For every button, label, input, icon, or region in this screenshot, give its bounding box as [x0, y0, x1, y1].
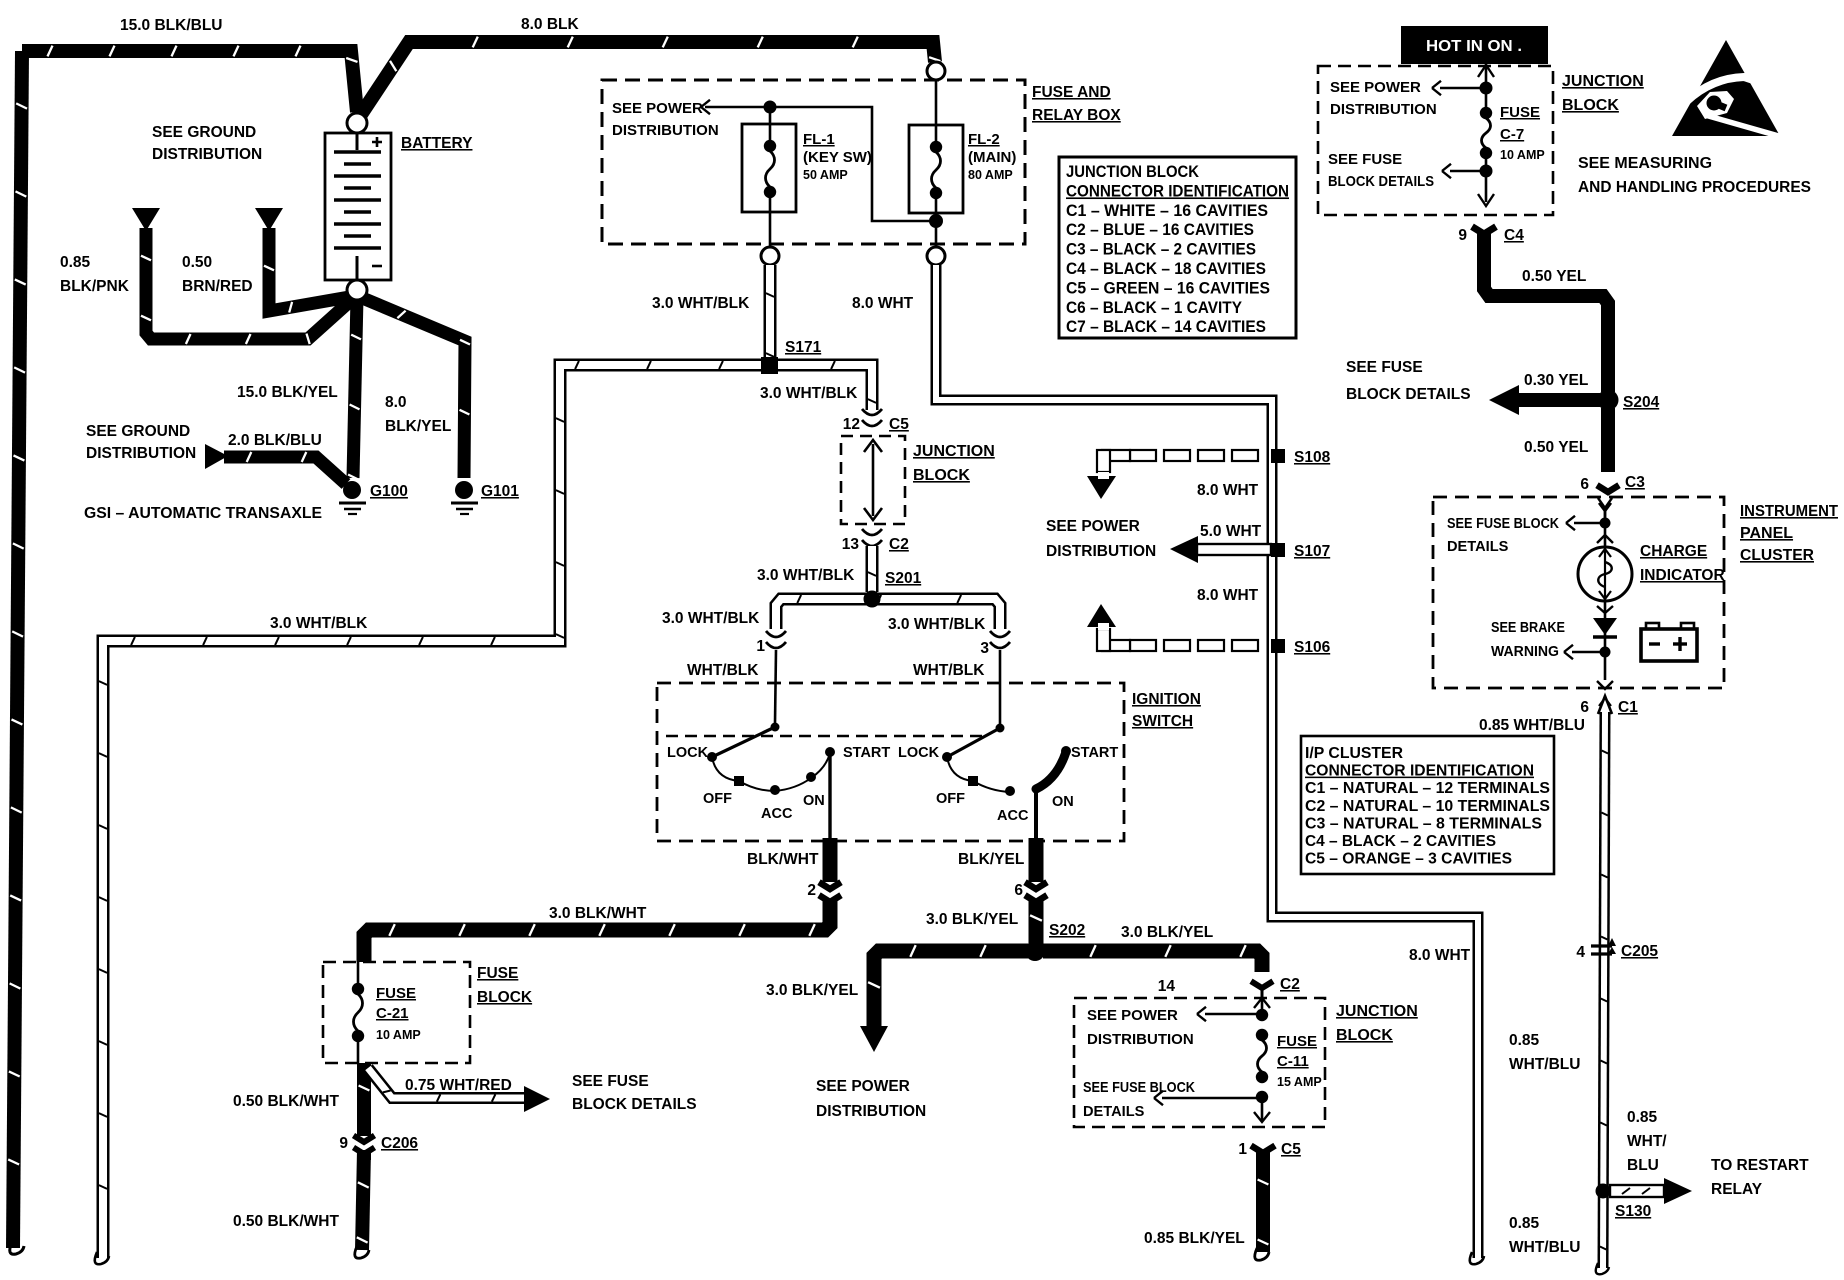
svg-text:ACC: ACC	[761, 806, 793, 822]
svg-text:SEE GROUND: SEE GROUND	[152, 124, 256, 141]
svg-text:DISTRIBUTION: DISTRIBUTION	[1046, 543, 1156, 560]
splice S202	[1025, 922, 1085, 961]
svg-text:(MAIN): (MAIN)	[968, 149, 1016, 166]
wire 3.0 WHT/BLK (S171 loop)	[95, 361, 761, 1264]
connector pin 2	[807, 874, 841, 912]
svg-text:C-21: C-21	[376, 1005, 409, 1022]
svg-text:SEE POWER: SEE POWER	[1087, 1007, 1178, 1024]
svg-text:C3 – BLACK – 2 CAVITIES: C3 – BLACK – 2 CAVITIES	[1066, 241, 1256, 259]
svg-text:C3: C3	[1625, 474, 1645, 491]
label see power distribution (C-11)	[1087, 1007, 1258, 1048]
wire 3.0 BLK/WHT	[364, 905, 830, 962]
terminal circle FL-2 out	[927, 247, 945, 265]
svg-text:C-7: C-7	[1500, 126, 1524, 143]
splice S130	[1596, 1109, 1810, 1220]
svg-text:FL-1: FL-1	[803, 131, 835, 148]
svg-text:3.0 WHT/BLK: 3.0 WHT/BLK	[270, 615, 368, 632]
svg-text:S171: S171	[785, 339, 822, 356]
svg-text:SEE FUSE BLOCK: SEE FUSE BLOCK	[1083, 1080, 1195, 1096]
svg-text:ACC: ACC	[997, 808, 1029, 824]
svg-text:8.0 WHT: 8.0 WHT	[1197, 587, 1259, 604]
label see fuse block details (fuse block)	[572, 1073, 697, 1113]
wire 3.0 BLK/YEL (to S202)	[926, 905, 1042, 948]
svg-text:S106: S106	[1294, 639, 1331, 656]
label GSI automatic transaxle	[84, 505, 322, 522]
svg-text:50 AMP: 50 AMP	[803, 168, 848, 182]
wire 15.0 BLK/BLU	[8, 17, 357, 1254]
svg-text:0.85: 0.85	[1627, 1109, 1658, 1126]
ignition switch bank B	[898, 724, 1118, 841]
svg-text:0.85 BLK/YEL: 0.85 BLK/YEL	[1144, 1230, 1245, 1247]
svg-text:TO RESTART: TO RESTART	[1711, 1157, 1809, 1174]
svg-text:15.0 BLK/YEL: 15.0 BLK/YEL	[237, 384, 338, 401]
svg-text:C2 – BLUE – 16 CAVITIES: C2 – BLUE – 16 CAVITIES	[1066, 221, 1254, 239]
wire 0.85 BLK/YEL	[1144, 1152, 1269, 1260]
svg-text:START: START	[1071, 745, 1118, 761]
svg-text:8.0: 8.0	[385, 394, 407, 411]
svg-text:BLU: BLU	[1627, 1157, 1659, 1174]
connector pin 1	[687, 631, 786, 679]
svg-text:SEE GROUND: SEE GROUND	[86, 423, 190, 440]
svg-text:BLK/PNK: BLK/PNK	[60, 278, 130, 295]
svg-text:SEE POWER: SEE POWER	[612, 100, 703, 117]
wire BLK/WHT (ignition out)	[747, 838, 830, 874]
svg-text:10 AMP: 10 AMP	[376, 1028, 421, 1042]
fuse and relay box	[602, 80, 1121, 244]
svg-text:JUNCTION BLOCK: JUNCTION BLOCK	[1066, 163, 1199, 181]
svg-text:15.0 BLK/BLU: 15.0 BLK/BLU	[120, 17, 223, 34]
label see measuring and handling procedures	[1578, 155, 1811, 196]
svg-text:G101: G101	[481, 483, 519, 500]
svg-text:C7 – BLACK – 14 CAVITIES: C7 – BLACK – 14 CAVITIES	[1066, 318, 1266, 336]
junction block (middle)	[841, 436, 995, 524]
svg-text:SEE POWER: SEE POWER	[816, 1078, 910, 1095]
fusible link FL-1	[742, 101, 872, 248]
wire 0.50 BLK/WHT (upper)	[233, 1063, 369, 1130]
svg-text:RELAY BOX: RELAY BOX	[1032, 107, 1121, 124]
svg-text:14: 14	[1158, 978, 1176, 995]
svg-text:3.0 BLK/WHT: 3.0 BLK/WHT	[549, 905, 647, 922]
svg-text:G100: G100	[370, 483, 408, 500]
wire 8.0 WHT (FL-2 feed)	[852, 265, 1484, 1264]
svg-text:C206: C206	[381, 1135, 418, 1152]
svg-text:3.0 BLK/YEL: 3.0 BLK/YEL	[926, 911, 1018, 928]
wire 3.0 BLK/YEL (S202 to C2)	[1043, 924, 1262, 972]
splice S106	[1087, 587, 1331, 656]
svg-text:C1: C1	[1618, 699, 1638, 716]
terminal circle FL-2 top	[927, 62, 945, 80]
svg-text:3: 3	[980, 640, 989, 657]
svg-text:INSTRUMENT: INSTRUMENT	[1740, 503, 1838, 520]
battery icon (cluster)	[1641, 623, 1697, 661]
svg-text:5.0 WHT: 5.0 WHT	[1200, 523, 1262, 540]
wire 3.0 BLK/YEL (S202 to power dist)	[766, 945, 1028, 1120]
svg-text:SWITCH: SWITCH	[1132, 713, 1193, 730]
svg-text:DISTRIBUTION: DISTRIBUTION	[152, 146, 262, 163]
svg-text:CONNECTOR IDENTIFICATION: CONNECTOR IDENTIFICATION	[1305, 763, 1534, 780]
wire 3.0 WHT/BLK (FL-1 to S171)	[652, 265, 774, 360]
ignition switch box	[657, 683, 1201, 841]
wire 3.0 WHT/BLK (S201 to ignition)	[662, 595, 1000, 633]
wire 2.0 BLK/BLU	[86, 423, 346, 484]
junction block (top right)	[1318, 66, 1644, 215]
wire 0.50 YEL (C4 to S204)	[1484, 232, 1608, 392]
charge indicator	[1578, 543, 1725, 601]
svg-text:0.85: 0.85	[60, 254, 91, 271]
wire 0.50 BRN/RED	[182, 208, 356, 313]
svg-text:BLOCK DETAILS: BLOCK DETAILS	[572, 1096, 697, 1113]
wire 0.85 WHT/BLU (C1 down)	[1479, 712, 1609, 1274]
svg-text:0.50 BLK/WHT: 0.50 BLK/WHT	[233, 1213, 339, 1230]
svg-text:DETAILS: DETAILS	[1083, 1104, 1145, 1120]
fuse C-21	[352, 962, 421, 1063]
svg-text:0.50: 0.50	[182, 254, 212, 271]
instrument panel cluster box	[1433, 497, 1838, 688]
svg-text:C5 – GREEN – 16 CAVITIES: C5 – GREEN – 16 CAVITIES	[1066, 279, 1270, 297]
fuse C-11	[1254, 998, 1322, 1122]
svg-text:C1 – WHITE – 16 CAVITIES: C1 – WHITE – 16 CAVITIES	[1066, 202, 1268, 220]
svg-text:C2 – NATURAL – 10 TERMINALS: C2 – NATURAL – 10 TERMINALS	[1305, 798, 1550, 815]
svg-text:DISTRIBUTION: DISTRIBUTION	[1087, 1031, 1194, 1048]
svg-text:C5: C5	[889, 416, 909, 433]
svg-text:DISTRIBUTION: DISTRIBUTION	[612, 122, 719, 139]
svg-text:0.85 WHT/BLU: 0.85 WHT/BLU	[1479, 717, 1585, 734]
svg-text:FL-2: FL-2	[968, 131, 1000, 148]
svg-text:C6 – BLACK – 1 CAVITY: C6 – BLACK – 1 CAVITY	[1066, 299, 1242, 317]
svg-text:START: START	[843, 745, 890, 761]
svg-text:C4 – BLACK – 2 CAVITIES: C4 – BLACK – 2 CAVITIES	[1305, 833, 1496, 850]
svg-text:ON: ON	[1052, 794, 1074, 810]
connector C206 pin 9	[339, 1130, 418, 1160]
splice S107	[1046, 518, 1330, 563]
wire 0.50 BLK/WHT (lower)	[233, 1150, 369, 1258]
svg-text:4: 4	[1576, 944, 1585, 961]
svg-text:S107: S107	[1294, 543, 1330, 560]
svg-text:BLK/WHT: BLK/WHT	[747, 851, 819, 868]
svg-text:BLOCK DETAILS: BLOCK DETAILS	[1328, 174, 1434, 190]
wire see power distribution (fuse box)	[612, 100, 930, 221]
svg-text:C5 – ORANGE – 3 CAVITIES: C5 – ORANGE – 3 CAVITIES	[1305, 851, 1512, 868]
svg-text:S108: S108	[1294, 449, 1331, 466]
svg-text:9: 9	[339, 1135, 348, 1152]
wire 3.0 WHT/BLK (C2 to S201)	[757, 546, 876, 592]
connector C3 pin 6	[1580, 474, 1645, 520]
connector C1 pin 6	[1580, 696, 1638, 716]
svg-text:2: 2	[807, 882, 816, 899]
svg-text:WHT/: WHT/	[1627, 1133, 1667, 1150]
connector C4 pin 9	[1458, 227, 1524, 244]
cluster entry node	[1447, 498, 1613, 555]
wire to ignition switch pivots	[775, 650, 1000, 724]
splice S201	[864, 570, 922, 608]
svg-text:3.0 WHT/BLK: 3.0 WHT/BLK	[888, 616, 986, 633]
svg-text:BLOCK DETAILS: BLOCK DETAILS	[1346, 386, 1471, 403]
svg-text:OFF: OFF	[703, 791, 732, 807]
svg-text:10 AMP: 10 AMP	[1500, 148, 1545, 162]
svg-text:BLK/YEL: BLK/YEL	[958, 851, 1024, 868]
svg-text:WHT/BLK: WHT/BLK	[687, 662, 759, 679]
cluster exit node	[1597, 681, 1613, 689]
label see ground distribution (battery)	[152, 124, 262, 163]
svg-text:80 AMP: 80 AMP	[968, 168, 1013, 182]
svg-text:BLOCK: BLOCK	[1562, 97, 1619, 114]
svg-text:SEE FUSE: SEE FUSE	[1346, 359, 1423, 376]
svg-text:9: 9	[1458, 227, 1467, 244]
svg-text:6: 6	[1580, 476, 1589, 493]
svg-text:8.0 WHT: 8.0 WHT	[1409, 947, 1471, 964]
svg-text:FUSE: FUSE	[1500, 104, 1540, 121]
svg-text:LOCK: LOCK	[667, 745, 709, 761]
svg-text:SEE POWER: SEE POWER	[1330, 79, 1421, 96]
svg-text:DETAILS: DETAILS	[1447, 539, 1509, 555]
svg-text:CLUSTER: CLUSTER	[1740, 547, 1814, 564]
svg-text:BLOCK: BLOCK	[1336, 1027, 1393, 1044]
svg-text:SEE FUSE BLOCK: SEE FUSE BLOCK	[1447, 516, 1559, 532]
svg-text:C3 – NATURAL – 8 TERMINALS: C3 – NATURAL – 8 TERMINALS	[1305, 815, 1542, 832]
svg-text:WARNING: WARNING	[1491, 644, 1559, 660]
svg-text:0.75 WHT/RED: 0.75 WHT/RED	[405, 1077, 512, 1094]
svg-text:6: 6	[1580, 699, 1589, 716]
fuse block box	[323, 962, 533, 1063]
wire 0.75 WHT/RED	[368, 1068, 550, 1112]
wire 8.0 BLK/YEL	[360, 297, 470, 478]
wire 0.85 BLK/PNK	[60, 208, 357, 344]
svg-text:8.0 WHT: 8.0 WHT	[1197, 482, 1259, 499]
svg-text:WHT/BLU: WHT/BLU	[1509, 1056, 1580, 1073]
svg-text:1: 1	[1238, 1141, 1247, 1158]
terminal circle FL-1 out	[761, 247, 779, 265]
connector pin 3	[913, 631, 1010, 679]
svg-text:C-11: C-11	[1277, 1053, 1309, 1070]
svg-text:FUSE: FUSE	[376, 985, 416, 1002]
wire 15.0 BLK/YEL	[237, 297, 361, 479]
svg-text:3.0 WHT/BLK: 3.0 WHT/BLK	[652, 295, 750, 312]
svg-text:WHT/BLK: WHT/BLK	[913, 662, 985, 679]
svg-text:0.50 BLK/WHT: 0.50 BLK/WHT	[233, 1093, 339, 1110]
ground G101	[451, 481, 519, 514]
connector C205 pin 4	[1576, 938, 1658, 961]
fuse C-7	[1478, 64, 1545, 206]
connector C2 pin 13	[842, 529, 909, 553]
svg-text:SEE POWER: SEE POWER	[1046, 518, 1140, 535]
svg-text:FUSE: FUSE	[1277, 1033, 1317, 1050]
svg-text:1: 1	[756, 638, 765, 655]
svg-text:C5: C5	[1281, 1141, 1301, 1158]
hot in on box	[1401, 26, 1548, 64]
svg-text:13: 13	[842, 536, 860, 553]
I/P cluster connector identification table	[1301, 736, 1554, 874]
splice S204	[1346, 359, 1660, 415]
wire BLK/YEL (ignition out)	[958, 838, 1036, 874]
svg-text:2.0 BLK/BLU: 2.0 BLK/BLU	[228, 432, 322, 449]
junction block connector identification table	[1059, 157, 1296, 338]
svg-text:0.85: 0.85	[1509, 1215, 1540, 1232]
connector pin 6	[1014, 874, 1047, 912]
label see power distribution (C-7)	[1330, 79, 1482, 118]
svg-text:SEE FUSE: SEE FUSE	[1328, 151, 1402, 168]
svg-text:JUNCTION: JUNCTION	[1336, 1003, 1418, 1020]
svg-text:15 AMP: 15 AMP	[1277, 1075, 1322, 1089]
svg-text:JUNCTION: JUNCTION	[1562, 73, 1644, 90]
svg-text:C205: C205	[1621, 943, 1658, 960]
wire 3.0 WHT/BLK (S171 to junction block)	[760, 361, 876, 410]
svg-text:RELAY: RELAY	[1711, 1181, 1763, 1198]
splice S171	[761, 339, 822, 374]
svg-text:S201: S201	[885, 570, 922, 587]
svg-text:3.0 BLK/YEL: 3.0 BLK/YEL	[1121, 924, 1213, 941]
wire 0.50 YEL (S204 to C3)	[1524, 408, 1608, 472]
label see fuse block details (C-11)	[1083, 1080, 1258, 1120]
svg-text:6: 6	[1014, 882, 1023, 899]
svg-text:3.0 WHT/BLK: 3.0 WHT/BLK	[757, 567, 855, 584]
svg-text:DISTRIBUTION: DISTRIBUTION	[816, 1103, 926, 1120]
svg-text:OFF: OFF	[936, 791, 965, 807]
svg-text:SEE FUSE: SEE FUSE	[572, 1073, 649, 1090]
svg-text:JUNCTION: JUNCTION	[913, 443, 995, 460]
svg-text:C4 – BLACK – 18 CAVITIES: C4 – BLACK – 18 CAVITIES	[1066, 260, 1266, 278]
svg-text:0.30 YEL: 0.30 YEL	[1524, 372, 1588, 389]
svg-text:DISTRIBUTION: DISTRIBUTION	[86, 445, 196, 462]
svg-text:BATTERY: BATTERY	[401, 135, 473, 152]
svg-text:C4: C4	[1504, 227, 1524, 244]
label see fuse block details (C-7)	[1328, 151, 1482, 190]
splice S108	[1087, 449, 1331, 499]
ignition switch bank A	[667, 723, 890, 841]
svg-text:SEE BRAKE: SEE BRAKE	[1491, 620, 1565, 636]
svg-text:SEE MEASURING: SEE MEASURING	[1578, 155, 1712, 172]
svg-text:AND HANDLING PROCEDURES: AND HANDLING PROCEDURES	[1578, 179, 1811, 196]
svg-text:DISTRIBUTION: DISTRIBUTION	[1330, 101, 1437, 118]
fusible link FL-2	[909, 71, 1016, 247]
svg-text:BLOCK: BLOCK	[477, 989, 533, 1006]
svg-text:3.0 BLK/YEL: 3.0 BLK/YEL	[766, 982, 858, 999]
svg-text:FUSE: FUSE	[477, 965, 518, 982]
svg-text:C1 – NATURAL – 12 TERMINALS: C1 – NATURAL – 12 TERMINALS	[1305, 780, 1550, 797]
svg-text:CONNECTOR IDENTIFICATION: CONNECTOR IDENTIFICATION	[1066, 182, 1289, 200]
svg-text:BRN/RED: BRN/RED	[182, 278, 253, 295]
svg-text:GSI – AUTOMATIC TRANSAXLE: GSI – AUTOMATIC TRANSAXLE	[84, 505, 322, 522]
svg-text:C2: C2	[1280, 976, 1300, 993]
svg-text:HOT IN ON .: HOT IN ON .	[1426, 38, 1522, 55]
svg-text:8.0 WHT: 8.0 WHT	[852, 295, 914, 312]
svg-text:BLOCK: BLOCK	[913, 467, 970, 484]
wire 8.0 BLK	[360, 16, 940, 116]
diode (cluster)	[1491, 601, 1617, 680]
svg-text:PANEL: PANEL	[1740, 525, 1793, 542]
svg-text:3.0 WHT/BLK: 3.0 WHT/BLK	[662, 610, 760, 627]
svg-text:0.85: 0.85	[1509, 1032, 1540, 1049]
svg-text:3.0 WHT/BLK: 3.0 WHT/BLK	[760, 385, 858, 402]
svg-text:S202: S202	[1049, 922, 1085, 939]
svg-text:C2: C2	[889, 536, 909, 553]
connector C5 pin 1	[1238, 1141, 1301, 1158]
svg-text:LOCK: LOCK	[898, 745, 940, 761]
svg-text:8.0 BLK: 8.0 BLK	[521, 16, 580, 33]
svg-text:INDICATOR: INDICATOR	[1640, 567, 1725, 584]
ESD warning symbol	[1672, 40, 1782, 137]
junction block (bottom right)	[1074, 998, 1418, 1127]
connector C2 pin 14	[1158, 976, 1300, 998]
battery	[325, 113, 473, 300]
svg-text:12: 12	[843, 416, 860, 433]
svg-text:0.50 YEL: 0.50 YEL	[1524, 439, 1588, 456]
svg-text:WHT/BLU: WHT/BLU	[1509, 1239, 1580, 1256]
svg-text:I/P CLUSTER: I/P CLUSTER	[1305, 745, 1403, 762]
svg-text:FUSE AND: FUSE AND	[1032, 84, 1111, 101]
connector C5 pin 12	[843, 409, 909, 433]
svg-text:CHARGE: CHARGE	[1640, 543, 1707, 560]
svg-text:S130: S130	[1615, 1203, 1651, 1220]
svg-text:0.50 YEL: 0.50 YEL	[1522, 268, 1586, 285]
svg-text:ON: ON	[803, 793, 825, 809]
svg-text:(KEY SW): (KEY SW)	[803, 149, 872, 166]
ground G100	[339, 481, 408, 514]
svg-text:S204: S204	[1623, 394, 1660, 411]
svg-text:BLK/YEL: BLK/YEL	[385, 418, 451, 435]
svg-text:IGNITION: IGNITION	[1132, 691, 1201, 708]
